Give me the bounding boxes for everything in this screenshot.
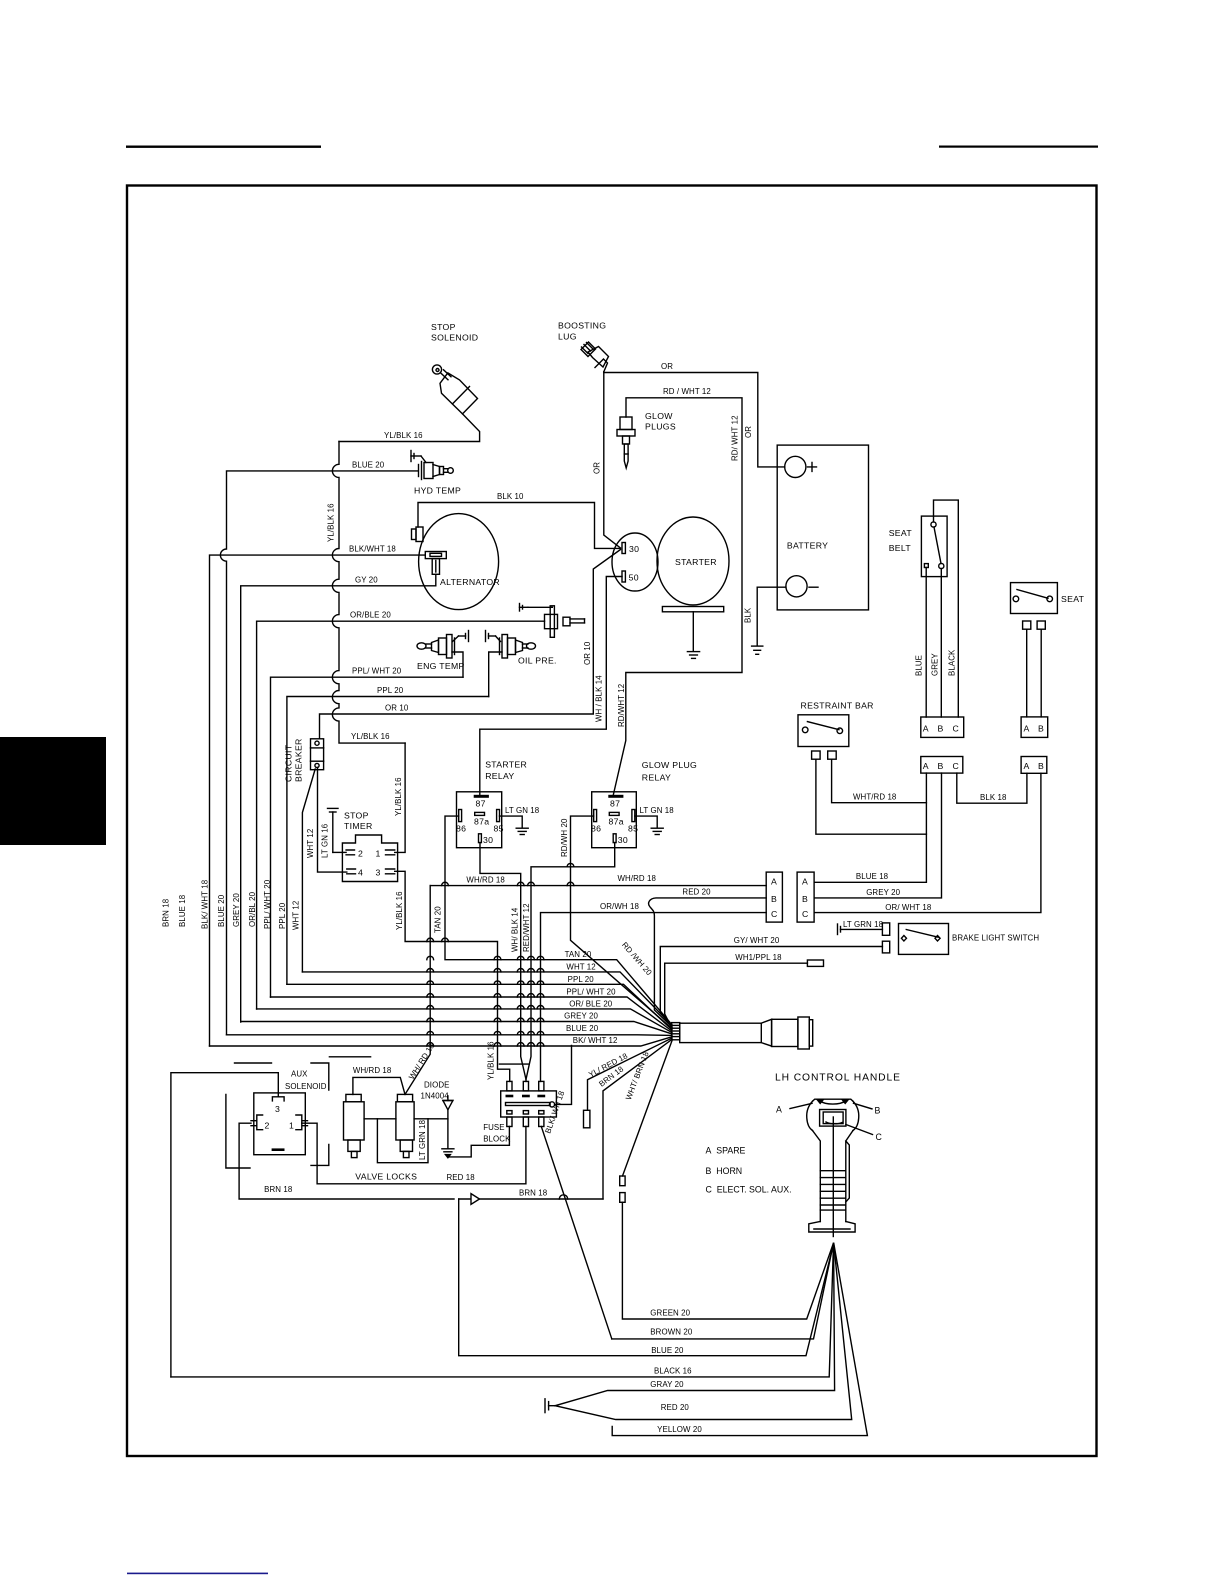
svg-text:VALVE LOCKS: VALVE LOCKS bbox=[355, 1172, 417, 1182]
stop timer bbox=[342, 835, 397, 882]
wire fuse bottom-left to diode ground bbox=[448, 1127, 510, 1157]
wire RED/WHT 12: glow relay 30 down to fuse block bbox=[526, 843, 615, 1080]
svg-text:2: 2 bbox=[358, 849, 363, 859]
svg-text:30: 30 bbox=[629, 544, 639, 554]
wire BLK battery to ground bbox=[757, 587, 786, 645]
svg-text:PPL/ WHT 20: PPL/ WHT 20 bbox=[352, 667, 402, 676]
oil pressure sender bbox=[489, 635, 536, 697]
svg-text:GREEN 20: GREEN 20 bbox=[650, 1309, 690, 1318]
diode 1N4004 bbox=[443, 1096, 453, 1149]
wire RED 20 bbox=[555, 1244, 852, 1420]
wire YELLOW 20 bbox=[612, 1244, 867, 1436]
wire GREEN 20 bbox=[622, 1202, 833, 1319]
svg-text:WHT 12: WHT 12 bbox=[306, 829, 315, 858]
battery bbox=[777, 445, 868, 610]
svg-text:LT GRN 18: LT GRN 18 bbox=[843, 920, 884, 929]
stop timer ground bbox=[328, 808, 339, 852]
wire OR/WH 18 bbox=[541, 913, 767, 1082]
svg-text:C: C bbox=[953, 761, 960, 771]
wire YL/RED 18 diagonal bbox=[588, 1038, 673, 1110]
svg-text:OR/BLE 20: OR/BLE 20 bbox=[350, 611, 391, 620]
valve lock solenoid right bbox=[396, 1094, 414, 1157]
alternator bbox=[419, 514, 499, 610]
aux pin 2 bbox=[251, 1115, 263, 1130]
stop timer pin 4 bbox=[347, 869, 356, 874]
svg-text:AUX: AUX bbox=[291, 1070, 308, 1079]
harness connector box 2 A B C bbox=[797, 872, 814, 922]
svg-text:30: 30 bbox=[483, 835, 493, 845]
connector neck step bbox=[761, 1019, 771, 1046]
svg-text:A: A bbox=[771, 877, 777, 887]
valve lock solenoid left bbox=[344, 1094, 365, 1157]
svg-text:LH CONTROL HANDLE: LH CONTROL HANDLE bbox=[775, 1073, 901, 1084]
aux bottom mark bbox=[273, 1148, 283, 1151]
svg-text:RD/WH 20: RD/WH 20 bbox=[560, 818, 569, 857]
terminal 50 bbox=[622, 571, 625, 582]
svg-text:SEAT: SEAT bbox=[889, 528, 913, 538]
brake switch lower terminal bbox=[882, 941, 889, 953]
seat switch bbox=[1011, 583, 1058, 614]
svg-text:YELLOW 20: YELLOW 20 bbox=[657, 1425, 702, 1434]
stop timer pin 1 bbox=[386, 850, 395, 855]
svg-text:BLK 10: BLK 10 bbox=[497, 492, 524, 501]
svg-text:RED 18: RED 18 bbox=[447, 1173, 476, 1182]
bundle wire OR/BLE 20 bbox=[257, 1009, 672, 1033]
wire GY 20 bbox=[241, 586, 436, 1022]
starter relay ground bbox=[516, 828, 528, 834]
svg-text:TAN 20: TAN 20 bbox=[434, 906, 443, 933]
bundle wire BLUE 20 bbox=[227, 1034, 673, 1037]
restraint bar switch bbox=[798, 715, 849, 747]
seat belt switch bbox=[921, 516, 947, 577]
svg-text:B: B bbox=[1038, 761, 1044, 771]
svg-text:1: 1 bbox=[289, 1121, 294, 1131]
BRN 18 arrow bbox=[471, 1194, 480, 1205]
svg-text:3: 3 bbox=[376, 868, 381, 878]
wire WHT/PPL 18 bbox=[665, 963, 808, 1028]
svg-text:OIL PRE.: OIL PRE. bbox=[518, 656, 557, 666]
svg-text:OR/WH 18: OR/WH 18 bbox=[600, 902, 639, 911]
svg-text:OR: OR bbox=[661, 362, 673, 371]
svg-text:A: A bbox=[1024, 761, 1030, 771]
svg-text:YL/BLK 16: YL/BLK 16 bbox=[384, 431, 423, 440]
svg-text:YL/BLK 16: YL/BLK 16 bbox=[351, 732, 390, 741]
wire WHT 12 breaker down to bundle bbox=[302, 769, 315, 972]
bundle wire PPL/WHT 20 bbox=[271, 997, 673, 1031]
svg-text:DIODE: DIODE bbox=[424, 1081, 450, 1090]
svg-text:1N4004: 1N4004 bbox=[421, 1092, 450, 1101]
svg-text:PLUGS: PLUGS bbox=[645, 422, 676, 432]
svg-text:RELAY: RELAY bbox=[642, 773, 671, 783]
svg-text:WH/RD 18: WH/RD 18 bbox=[466, 875, 505, 884]
seat belt connector upper A B C bbox=[921, 717, 964, 737]
bundle wire WHT 12 to connector bbox=[302, 972, 672, 1026]
wire BRN 18 aux pin 2 to connector bbox=[239, 1123, 603, 1199]
svg-text:86: 86 bbox=[456, 824, 466, 834]
boosting lug bbox=[581, 342, 609, 372]
svg-text:4: 4 bbox=[358, 868, 363, 878]
svg-text:PPL 20: PPL 20 bbox=[377, 686, 404, 695]
svg-text:YL/BLK 16: YL/BLK 16 bbox=[487, 1041, 496, 1080]
handle base bbox=[809, 1222, 855, 1233]
svg-text:LT GN 18: LT GN 18 bbox=[640, 806, 675, 815]
terminal 30 bbox=[622, 543, 625, 554]
bundle wire GREY 20 bbox=[241, 1022, 672, 1035]
hyd temp ground bbox=[411, 451, 426, 463]
wire restraint left leg bbox=[816, 760, 927, 835]
svg-text:BREAKER: BREAKER bbox=[294, 738, 304, 782]
svg-text:RED 20: RED 20 bbox=[661, 1403, 690, 1412]
svg-text:BLK/ WHT 18: BLK/ WHT 18 bbox=[201, 879, 210, 929]
svg-text:SOLENOID: SOLENOID bbox=[431, 333, 478, 343]
wire BLK 18 seat belt lower C to seat connector A bbox=[957, 773, 1027, 803]
svg-text:CIRCUIT: CIRCUIT bbox=[284, 744, 294, 782]
wire WH/RD 18 to valve tops bbox=[353, 1077, 405, 1094]
top left rule bbox=[126, 146, 321, 148]
svg-text:GY 20: GY 20 bbox=[355, 575, 378, 584]
wires seat switch to connector bbox=[1026, 629, 1028, 717]
eng temp ground bbox=[453, 631, 469, 642]
svg-text:RELAY: RELAY bbox=[485, 771, 514, 781]
svg-text:STARTER: STARTER bbox=[485, 760, 527, 770]
wire LT GN 16 to stop timer pin 2 bbox=[333, 851, 346, 853]
svg-text:GREY 20: GREY 20 bbox=[232, 893, 241, 927]
seat switch terminals bbox=[1023, 621, 1031, 629]
wire OR boosting lug to battery + bbox=[604, 372, 785, 467]
stop timer pin 3 bbox=[386, 869, 395, 874]
svg-text:BELT: BELT bbox=[889, 543, 912, 553]
aux pin 1 bbox=[296, 1115, 308, 1130]
svg-text:ENG TEMP: ENG TEMP bbox=[417, 661, 465, 671]
svg-text:BLUE 20: BLUE 20 bbox=[566, 1024, 599, 1033]
handle switch A dot bbox=[817, 1099, 824, 1103]
svg-text:1: 1 bbox=[376, 849, 381, 859]
bundle wire BK/WHT 12 bbox=[210, 1037, 673, 1046]
wire stop solenoid to left bus YL/BLK 16 bbox=[339, 414, 480, 442]
left bus vertical YL/BLK 16 with hops bbox=[332, 442, 405, 744]
harness connector box 1 A B C bbox=[766, 872, 782, 922]
svg-text:LT GN 16: LT GN 16 bbox=[320, 823, 329, 858]
fuse element bbox=[506, 1102, 555, 1107]
wire RD/WHT 12 loop: glow plugs to glow plug relay 87 bbox=[613, 398, 742, 795]
svg-text:TIMER: TIMER bbox=[344, 821, 373, 831]
svg-text:87a: 87a bbox=[474, 817, 489, 827]
svg-text:BLACK: BLACK bbox=[948, 649, 957, 676]
wire PPL/WHT 20 bbox=[271, 677, 464, 997]
svg-text:BLOCK: BLOCK bbox=[483, 1135, 511, 1144]
svg-text:STOP: STOP bbox=[344, 811, 369, 821]
wire LT GRN 18 U-loop bbox=[377, 1119, 428, 1163]
wire YL/BLK 16 down to stop timer pin 1 bbox=[395, 743, 405, 852]
wire RD/WH 20: glow relay 86 down to connector bbox=[571, 816, 673, 1029]
svg-text:HYD TEMP: HYD TEMP bbox=[414, 486, 461, 496]
svg-text:RD/WHT 12: RD/WHT 12 bbox=[617, 684, 626, 727]
starter motor bbox=[657, 517, 729, 605]
svg-text:GRAY 20: GRAY 20 bbox=[650, 1380, 684, 1389]
svg-text:WH/ BLK 14: WH/ BLK 14 bbox=[510, 907, 519, 952]
svg-text:RED/WHT 12: RED/WHT 12 bbox=[522, 903, 531, 952]
svg-text:OR: OR bbox=[593, 462, 602, 474]
svg-text:86: 86 bbox=[591, 824, 601, 834]
wire BLACK 16 bbox=[171, 1244, 834, 1377]
svg-text:B: B bbox=[938, 724, 944, 734]
glow relay ground bbox=[651, 828, 663, 834]
wire GREY 20 seat belt lower B down bbox=[814, 773, 941, 898]
seat connector upper A B bbox=[1021, 717, 1048, 738]
fuse block bottom pins bbox=[507, 1111, 544, 1127]
svg-text:SEAT: SEAT bbox=[1061, 594, 1085, 604]
wire YL/BLK 16 stop timer pin 3 to fuse block bbox=[395, 871, 510, 1081]
svg-text:OR/ BLE 20: OR/ BLE 20 bbox=[569, 999, 613, 1008]
svg-text:C: C bbox=[876, 1132, 883, 1142]
wire BLUE seat belt to connector A bbox=[925, 568, 927, 718]
seat belt connector lower A B C bbox=[921, 757, 963, 774]
svg-text:LT GN 18: LT GN 18 bbox=[505, 806, 540, 815]
svg-text:BROWN 20: BROWN 20 bbox=[650, 1328, 693, 1337]
connector pin block bbox=[672, 1023, 680, 1040]
wire WHT/RD 18 restraint to junction bbox=[832, 760, 927, 803]
wire RED 18 fuse bottom-middle to aux solenoid pin 1 bbox=[302, 1123, 526, 1184]
connector ring 1 bbox=[772, 1019, 798, 1046]
left black tab bbox=[0, 737, 106, 845]
fuse block top pins bbox=[507, 1081, 544, 1096]
svg-text:C: C bbox=[771, 909, 778, 919]
svg-text:BLUE 20: BLUE 20 bbox=[352, 461, 385, 470]
svg-text:B: B bbox=[875, 1106, 881, 1116]
svg-text:BLK/WHT 18: BLK/WHT 18 bbox=[349, 545, 396, 554]
wire OR 10: terminal 30 down to circuit breaker bbox=[320, 550, 621, 739]
svg-text:FUSE: FUSE bbox=[483, 1123, 504, 1132]
starter ground bar bbox=[662, 607, 723, 612]
svg-text:BK/ WHT 12: BK/ WHT 12 bbox=[573, 1036, 618, 1045]
svg-text:B: B bbox=[1038, 724, 1044, 734]
svg-text:BLK 18: BLK 18 bbox=[980, 793, 1007, 802]
seat connector lower A B bbox=[1021, 757, 1047, 774]
svg-text:PPL 20: PPL 20 bbox=[568, 975, 595, 984]
svg-text:A: A bbox=[923, 761, 929, 771]
svg-text:RED 20: RED 20 bbox=[682, 888, 711, 897]
battery - terminal bbox=[786, 576, 807, 597]
svg-text:87: 87 bbox=[610, 799, 620, 809]
svg-text:GLOW: GLOW bbox=[645, 411, 673, 421]
fuse block body bbox=[501, 1091, 557, 1117]
wire PPL 20 bbox=[287, 697, 489, 985]
wire aux pin 3 up and to left vertical bbox=[171, 1073, 278, 1377]
svg-text:PPL 20: PPL 20 bbox=[278, 902, 287, 929]
svg-text:WH1/PPL 18: WH1/PPL 18 bbox=[735, 953, 782, 962]
svg-text:BLUE 18: BLUE 18 bbox=[178, 894, 187, 927]
oil pressure sender ground bbox=[486, 631, 501, 642]
bottom left blue rule bbox=[127, 1573, 268, 1575]
wire from seat belt top over to BLACK drop bbox=[934, 500, 959, 717]
wire WH/BLK 14: starter relay 30 down to fuse block bbox=[480, 843, 526, 1082]
diode ground bbox=[442, 1149, 454, 1158]
LT GRN 18 stub terminal bbox=[838, 923, 890, 935]
svg-text:RD/ WHT 12: RD/ WHT 12 bbox=[730, 415, 739, 461]
svg-text:BLACK 16: BLACK 16 bbox=[654, 1366, 692, 1375]
svg-text:A: A bbox=[802, 877, 808, 887]
wire fuse bottom-right diagonal to BROWN 20 bbox=[541, 1127, 612, 1339]
wire BLUE 20 branch down from BRN 18 line bbox=[459, 1199, 834, 1356]
svg-text:RD / WHT 12: RD / WHT 12 bbox=[663, 387, 711, 396]
svg-text:BRN 18: BRN 18 bbox=[519, 1189, 548, 1198]
starter solenoid bbox=[612, 533, 658, 591]
stop solenoid bbox=[432, 365, 477, 414]
YL/RED 18 terminal bbox=[584, 1110, 590, 1128]
svg-text:TAN 20: TAN 20 bbox=[565, 950, 592, 959]
svg-text:RD /WH 20: RD /WH 20 bbox=[620, 940, 654, 977]
svg-text:85: 85 bbox=[494, 824, 504, 834]
aux solenoid box bbox=[254, 1093, 305, 1155]
wire crossover bumps bbox=[427, 863, 574, 1199]
handle stem bbox=[813, 1117, 854, 1237]
wire from fuse to BK/WHT line bbox=[555, 1046, 572, 1105]
svg-text:WH/RD 18: WH/RD 18 bbox=[618, 874, 657, 883]
svg-text:GREY 20: GREY 20 bbox=[866, 888, 900, 897]
handle switch B dot bbox=[842, 1099, 849, 1103]
wire BLK 10 bbox=[418, 503, 621, 549]
svg-text:BLUE 18: BLUE 18 bbox=[856, 872, 889, 881]
fuel sender on OR/BLE 20 bbox=[520, 604, 585, 638]
svg-text:OR: OR bbox=[744, 426, 753, 438]
alternator B+ terminal bbox=[412, 527, 424, 542]
svg-text:LUG: LUG bbox=[558, 332, 577, 342]
svg-text:BRN 18: BRN 18 bbox=[162, 898, 171, 927]
svg-text:WHT 12: WHT 12 bbox=[292, 901, 301, 930]
battery ground bbox=[752, 646, 763, 654]
wire GRAY 20 bbox=[555, 1244, 835, 1406]
handle head bbox=[807, 1099, 859, 1130]
connector ring 2 bbox=[798, 1017, 809, 1049]
svg-text:BLUE 20: BLUE 20 bbox=[651, 1346, 684, 1355]
svg-text:YL/BLK 16: YL/BLK 16 bbox=[395, 891, 404, 930]
brake light switch bbox=[899, 924, 949, 955]
svg-text:STOP: STOP bbox=[431, 322, 456, 332]
svg-text:87a: 87a bbox=[609, 817, 624, 827]
aux pin 3 bbox=[272, 1097, 284, 1101]
wire GREY seat belt to connector B bbox=[940, 569, 942, 717]
svg-text:BATTERY: BATTERY bbox=[787, 541, 828, 551]
starter ground bbox=[687, 652, 699, 659]
svg-text:BOOSTING: BOOSTING bbox=[558, 321, 606, 331]
wire WHT 12 breaker to stop timer pin 4 bbox=[318, 768, 347, 873]
svg-text:STARTER: STARTER bbox=[675, 557, 717, 567]
svg-text:LT GRN 18: LT GRN 18 bbox=[418, 1119, 427, 1160]
svg-text:C: C bbox=[953, 724, 960, 734]
svg-text:OR 10: OR 10 bbox=[385, 704, 409, 713]
svg-text:YL/BLK 16: YL/BLK 16 bbox=[394, 777, 403, 816]
glow relay 85 wire to ground bbox=[635, 816, 657, 827]
wire BROWN 20 bbox=[612, 1244, 834, 1339]
alternator plug connector bbox=[425, 552, 446, 586]
wire BLUE 20 bbox=[220, 471, 418, 1035]
svg-text:PPL/ WHT 20: PPL/ WHT 20 bbox=[263, 879, 272, 929]
svg-text:C: C bbox=[802, 909, 809, 919]
svg-text:50: 50 bbox=[629, 573, 639, 583]
wire WH/BRN 18 diagonal to inline connector bbox=[623, 1041, 673, 1176]
bundle wire PPL 20 bbox=[287, 984, 672, 1030]
wire WH/RD 18 drop from harness line down to valve locks bbox=[405, 886, 430, 1095]
wire GY/WHT 20 bbox=[660, 947, 882, 1028]
hyd temp sender bbox=[419, 462, 454, 480]
inline connector squares GREEN 20 / WH/BRN 18 bbox=[620, 1176, 625, 1202]
top right rule bbox=[939, 146, 1098, 148]
wire valves interconnect bbox=[364, 1118, 448, 1120]
svg-text:2: 2 bbox=[265, 1121, 270, 1131]
glow plug relay bbox=[592, 792, 637, 848]
connector end plate bbox=[809, 1020, 812, 1046]
wire OR down to starter terminal 30 bbox=[604, 373, 621, 549]
eng temp sender bbox=[417, 635, 463, 678]
svg-text:YL/BLK 16: YL/BLK 16 bbox=[327, 503, 336, 542]
wire OR/BLE 20 bbox=[257, 621, 545, 1009]
svg-text:B HORN: B HORN bbox=[706, 1166, 743, 1176]
svg-text:B: B bbox=[938, 761, 944, 771]
glow plugs bbox=[617, 417, 635, 468]
battery + terminal bbox=[785, 456, 806, 477]
svg-text:RESTRAINT BAR: RESTRAINT BAR bbox=[801, 701, 874, 711]
svg-text:C ELECT. SOL. AUX.: C ELECT. SOL. AUX. bbox=[706, 1185, 792, 1195]
svg-text:BLUE 20: BLUE 20 bbox=[217, 894, 226, 927]
starter relay bbox=[457, 792, 502, 848]
svg-text:BRAKE LIGHT SWITCH: BRAKE LIGHT SWITCH bbox=[952, 934, 1039, 943]
connector barrel bbox=[680, 1023, 762, 1042]
svg-text:BLK/ WH 18: BLK/ WH 18 bbox=[543, 1089, 566, 1134]
wire seat belt lower A / restraint / BLUE 18 vertical bbox=[814, 773, 926, 882]
restraint bar terminals bbox=[812, 751, 821, 759]
svg-text:BRN 18: BRN 18 bbox=[264, 1185, 293, 1194]
circuit breaker bbox=[311, 739, 324, 770]
wire WH/BLK 14: terminal 50 to starter relay 87 bbox=[480, 577, 622, 796]
svg-text:WH/RD 18: WH/RD 18 bbox=[353, 1066, 392, 1075]
svg-text:GREY: GREY bbox=[931, 653, 940, 676]
svg-text:WH / BLK 14: WH / BLK 14 bbox=[595, 675, 604, 722]
aux assembly bracket marks bbox=[226, 1057, 528, 1168]
svg-text:85: 85 bbox=[628, 824, 638, 834]
wire RED 20 up from connector bbox=[649, 898, 767, 1027]
stop timer pin 2 bbox=[346, 850, 354, 855]
svg-text:SOLENOID: SOLENOID bbox=[285, 1082, 327, 1091]
gray/red fork terminal bbox=[545, 1399, 555, 1413]
svg-text:WHT/RD 18: WHT/RD 18 bbox=[853, 793, 897, 802]
svg-text:OR/ WHT 18: OR/ WHT 18 bbox=[885, 903, 932, 912]
svg-text:GY/ WHT 20: GY/ WHT 20 bbox=[734, 936, 780, 945]
svg-text:WHT 12: WHT 12 bbox=[566, 963, 595, 972]
svg-text:BLUE: BLUE bbox=[915, 655, 924, 676]
svg-text:A SPARE: A SPARE bbox=[706, 1146, 746, 1156]
svg-text:A: A bbox=[923, 724, 929, 734]
svg-text:GREY 20: GREY 20 bbox=[564, 1012, 598, 1021]
svg-text:PPL/ WHT 20: PPL/ WHT 20 bbox=[566, 987, 616, 996]
svg-text:OR 10: OR 10 bbox=[583, 641, 592, 665]
svg-text:OR/BL 20: OR/BL 20 bbox=[248, 891, 257, 927]
wire WH/RD 18 bbox=[430, 885, 766, 887]
svg-text:A: A bbox=[1024, 724, 1030, 734]
svg-text:87: 87 bbox=[476, 799, 486, 809]
svg-text:B: B bbox=[802, 894, 808, 904]
diagram border bbox=[127, 186, 1097, 1457]
svg-text:GLOW PLUG: GLOW PLUG bbox=[642, 760, 697, 770]
svg-text:3: 3 bbox=[275, 1104, 280, 1114]
wire BRN 18 diagonal down bbox=[603, 1039, 672, 1199]
svg-text:ALTERNATOR: ALTERNATOR bbox=[440, 577, 500, 587]
wire OR/WHT 18 seat lower B down bbox=[814, 773, 1041, 912]
svg-text:30: 30 bbox=[618, 835, 628, 845]
svg-text:A: A bbox=[776, 1105, 782, 1115]
svg-text:WH/ RD 18: WH/ RD 18 bbox=[407, 1041, 437, 1081]
starter relay 85 wire to ground bbox=[500, 816, 523, 827]
wire BLK/WHT 18 bbox=[210, 555, 426, 1046]
